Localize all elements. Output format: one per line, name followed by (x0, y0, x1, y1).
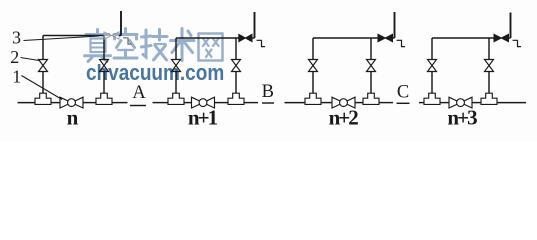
svg-text:n+1: n+1 (188, 106, 218, 130)
wire top manifold unit n+1 (176, 37, 239, 39)
node B label (262, 82, 274, 102)
leader line 1 (22, 76, 63, 100)
wire top manifold unit n+3 (432, 37, 494, 39)
label 3 (12, 28, 21, 48)
main valve unit n+3 (449, 97, 472, 108)
leader line 2 (21, 58, 40, 61)
valve 2 right riser unit n+1 (232, 60, 241, 72)
wire left riser unit n (42, 36, 44, 94)
wire left riser unit n+2 (312, 38, 314, 93)
wire manifold right of unit n (112, 102, 128, 104)
wire right riser unit n+3 (488, 38, 490, 93)
wire manifold left of unit n+2 (285, 102, 306, 104)
wire right riser unit n (103, 36, 105, 94)
wire vent riser unit n+2 (394, 12, 396, 38)
svg-text:n+2: n+2 (329, 106, 359, 130)
svg-text:chvacuum.com: chvacuum.com (86, 61, 224, 86)
flange tee left unit n+3 (424, 93, 440, 104)
wire vent stub unit n+1 (252, 37, 255, 39)
wire top manifold unit n+2 (313, 37, 378, 39)
label 2 (10, 47, 19, 67)
wire vent stub unit n (119, 35, 121, 37)
valve 2 right riser unit n+3 (485, 60, 494, 72)
wire manifold right of unit n+3 (497, 102, 526, 104)
wire manifold between left tee and valve n (51, 102, 60, 104)
valve 2 right riser unit n (100, 60, 109, 72)
vent outlet mark unit n+2 (397, 40, 406, 46)
valve 2 left riser unit n+1 (172, 60, 181, 72)
node C label (397, 83, 409, 103)
flange tee right unit n+1 (228, 93, 244, 104)
svg-text:1: 1 (12, 67, 21, 87)
wire manifold between left tee and valve n+1 (184, 102, 192, 104)
leader line 3 (24, 36, 100, 41)
valve 2 left riser unit n+3 (428, 60, 437, 72)
svg-text:n+3: n+3 (447, 106, 477, 130)
vent outlet mark unit n+1 (257, 40, 266, 46)
wire left riser unit n+1 (175, 38, 177, 93)
valve 2 left riser unit n+2 (309, 60, 318, 72)
wire manifold between valve n and right tee (83, 102, 96, 104)
wire manifold right of unit n+1 (244, 102, 259, 104)
vent outlet mark unit n+3 (513, 40, 522, 46)
wire manifold between valve n+2 and right tee (355, 102, 363, 104)
wire right riser unit n+2 (370, 38, 372, 93)
wire manifold right of unit n+2 (379, 102, 393, 104)
svg-text:C: C (397, 83, 409, 103)
wire manifold segment left of unit n (18, 102, 36, 104)
valve 2 left riser unit n (39, 60, 48, 72)
wire right riser unit n+1 (235, 38, 237, 93)
vent valve unit n+3 (494, 34, 509, 41)
watermark char wang (199, 34, 223, 61)
wire manifold left of unit n+1 (153, 102, 168, 104)
svg-text:3: 3 (12, 28, 21, 48)
watermark char zhen (85, 30, 111, 62)
wire vent riser unit n+3 (510, 13, 512, 39)
watermark char kong (114, 29, 137, 59)
label 1 (12, 67, 21, 87)
wire vent riser unit n (120, 11, 122, 36)
watermark char ji (142, 30, 168, 61)
node B break dash (262, 102, 274, 104)
label n+1 (188, 106, 218, 130)
wire vent stub unit n+2 (393, 37, 395, 39)
valve 2 right riser unit n+2 (367, 60, 376, 72)
label n+3 (447, 106, 477, 130)
watermark char shu (171, 29, 195, 61)
wire manifold between left tee and valve n+2 (321, 102, 332, 104)
wire manifold left of unit n+3 (419, 102, 424, 104)
main valve unit n (60, 97, 83, 108)
wire vent stub unit n+3 (509, 37, 511, 39)
svg-text:B: B (262, 82, 274, 102)
wire manifold between valve n+3 and right tee (472, 102, 481, 104)
label n+2 (329, 106, 359, 130)
wire manifold between left tee and valve n+3 (440, 102, 449, 104)
flange tee left unit n (35, 93, 51, 104)
flange tee right unit n+2 (363, 93, 379, 104)
flange tee left unit n+1 (168, 93, 184, 104)
vent valve unit n+2 (378, 34, 393, 41)
wire manifold between valve n+1 and right tee (215, 102, 228, 104)
svg-text:2: 2 (10, 47, 19, 67)
node A label (132, 83, 146, 103)
vent valve unit n+1 (239, 34, 252, 41)
label n (67, 106, 79, 130)
vent outlet mark unit n (123, 38, 132, 44)
watermark chvacuum.com (86, 61, 224, 86)
vent valve unit n (104, 32, 119, 39)
wire vent riser unit n+1 (254, 12, 256, 38)
wire left riser unit n+3 (431, 38, 433, 93)
svg-text:A: A (132, 83, 146, 103)
node C break dash (397, 102, 410, 104)
main valve unit n+2 (332, 97, 355, 108)
main valve unit n+1 (192, 97, 215, 108)
flange tee right unit n (96, 93, 112, 104)
flange tee left unit n+2 (305, 93, 321, 104)
wire top manifold unit n (43, 35, 104, 37)
node A break dash (130, 105, 146, 107)
flange tee right unit n+3 (481, 93, 497, 104)
